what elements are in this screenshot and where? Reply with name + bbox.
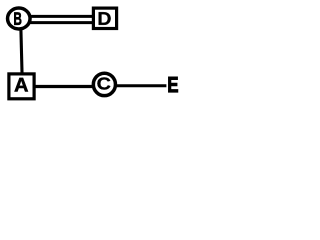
wire B=D double edge top line	[22, 15, 100, 18]
node C ellipse	[93, 73, 115, 95]
node B ellipse	[8, 8, 31, 29]
node D label	[99, 12, 111, 25]
node A box	[9, 74, 34, 99]
wire B=D double edge bottom line	[22, 21, 100, 24]
node D box	[93, 8, 116, 28]
wire A-C edge	[34, 85, 106, 88]
wire B-A edge	[21, 25, 22, 80]
node C label	[97, 77, 110, 89]
node A label	[15, 78, 28, 91]
wire C-E edge	[106, 84, 166, 87]
node B label	[14, 12, 21, 24]
node E label	[168, 77, 177, 92]
